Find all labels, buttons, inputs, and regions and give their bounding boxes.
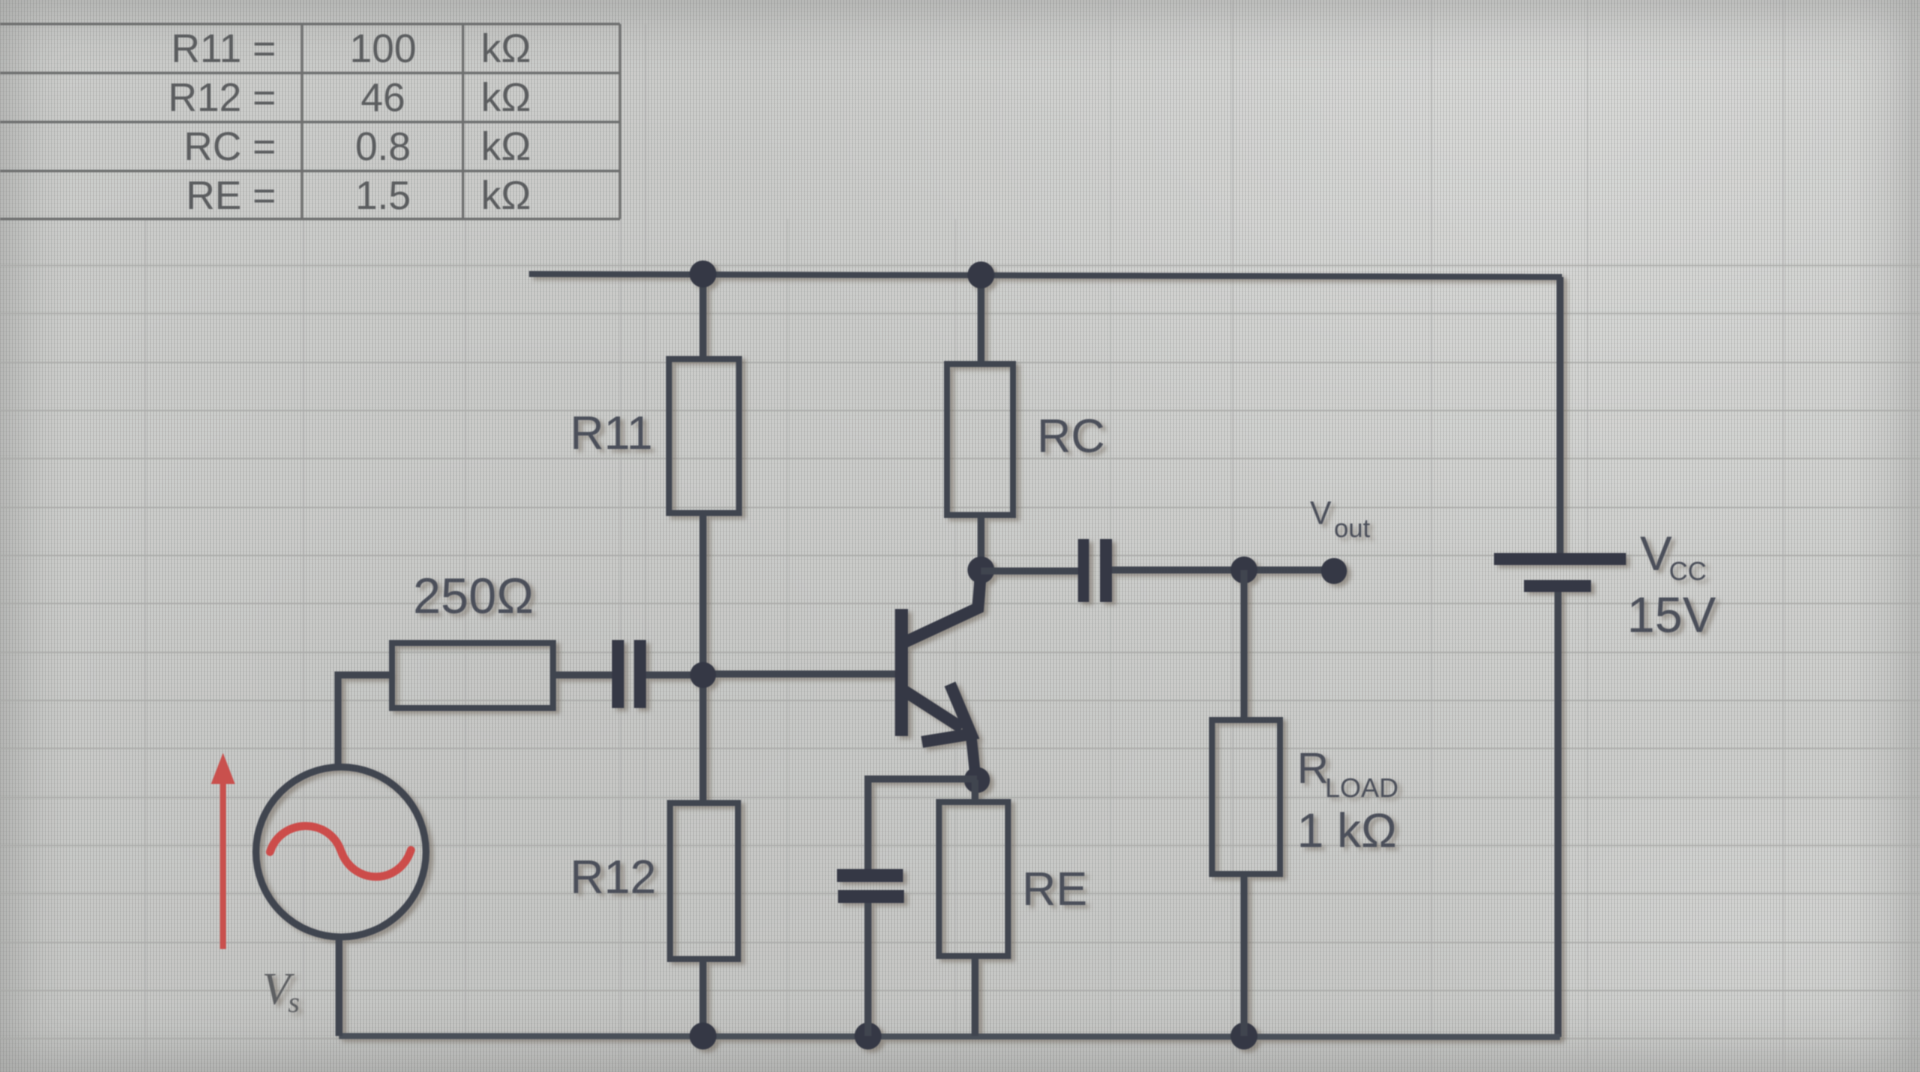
wire: RLOAD bottom lead	[1241, 874, 1248, 1036]
svg-text:1.5: 1.5	[355, 174, 411, 218]
wire: right vertical from top rail to battery	[1557, 277, 1564, 556]
wire: vout node to terminal	[1244, 567, 1333, 574]
svg-text:s: s	[288, 986, 300, 1019]
wire: top supply rail	[529, 274, 1562, 277]
svg-text:R12: R12	[570, 850, 656, 903]
svg-text:0.8: 0.8	[355, 125, 411, 169]
parameter table	[0, 24, 620, 219]
node: vout junction	[1231, 557, 1258, 584]
battery VCC short plate	[1524, 580, 1591, 592]
wire: RC bottom to collector node	[978, 515, 985, 573]
svg-text:V: V	[1310, 495, 1332, 531]
wire: RE bottom lead	[972, 956, 979, 1036]
svg-text:R: R	[1297, 744, 1329, 793]
node: emitter	[964, 767, 990, 793]
red reference arrow	[211, 753, 235, 949]
node: collector	[968, 557, 995, 584]
capacitor C2 plate 1	[1078, 539, 1089, 602]
node: ground bypass cap	[855, 1023, 882, 1050]
label RLOAD	[1297, 744, 1399, 858]
node: ground RLOAD	[1231, 1023, 1258, 1050]
capacitor C1 plate 2	[634, 640, 646, 708]
svg-text:R12 =: R12 =	[168, 76, 276, 120]
node: top rail R11	[690, 261, 717, 288]
transistor Q1 emitter arrow	[922, 684, 971, 742]
node: base junction	[690, 662, 716, 688]
label Vout	[1310, 495, 1371, 543]
svg-text:RC =: RC =	[184, 125, 276, 169]
wire: emitter node to RE	[972, 780, 979, 805]
source resistor 250 ohm	[392, 643, 553, 708]
node: ground R12	[690, 1023, 717, 1050]
wire: R12 top lead	[700, 675, 707, 806]
svg-text:kΩ: kΩ	[481, 76, 531, 120]
wire: battery to bottom rail	[1555, 589, 1562, 1037]
wire: bypass cap to ground	[865, 903, 872, 1036]
battery VCC long plate	[1494, 553, 1626, 565]
wire: source to resistor left lead	[338, 675, 392, 770]
svg-text:kΩ: kΩ	[481, 27, 531, 71]
wire: emitter tip to emitter node	[971, 734, 976, 782]
wire: collector node to output cap	[981, 568, 1080, 575]
svg-text:46: 46	[361, 76, 406, 120]
svg-text:kΩ: kΩ	[481, 174, 531, 218]
wire: output cap to vout node	[1112, 567, 1244, 574]
wire: vout node to RLOAD	[1241, 570, 1248, 723]
transistor Q1 emitter stroke	[903, 690, 962, 728]
svg-text:RE =: RE =	[186, 174, 276, 218]
svg-text:RC: RC	[1037, 409, 1105, 462]
wire: bottom ground rail	[339, 1036, 1560, 1037]
svg-text:15V: 15V	[1627, 587, 1717, 643]
wire: resistor to input cap	[553, 672, 614, 679]
svg-text:V: V	[1640, 528, 1672, 581]
svg-text:out: out	[1334, 513, 1371, 543]
capacitor C1 plate 1	[612, 640, 624, 708]
sine wave in source	[270, 826, 411, 877]
svg-text:CC: CC	[1669, 556, 1707, 586]
terminal Vout	[1321, 558, 1347, 584]
resistor RE	[939, 802, 1008, 956]
wire: input cap to base node	[646, 672, 703, 679]
wire: R12 bottom lead	[700, 959, 707, 1036]
wire: R11 bottom to base node	[700, 513, 707, 678]
wire: Vs bottom to ground rail	[336, 935, 343, 1036]
resistor R12	[670, 803, 738, 959]
svg-text:LOAD: LOAD	[1325, 773, 1399, 803]
svg-text:R11: R11	[570, 406, 653, 459]
wire: RC top lead	[978, 274, 985, 367]
label Vs	[262, 963, 300, 1019]
svg-text:250Ω: 250Ω	[413, 568, 534, 624]
bypass capacitor CE plate 1	[837, 869, 903, 882]
bypass capacitor CE plate 2	[838, 890, 904, 903]
svg-text:1 kΩ: 1 kΩ	[1297, 805, 1397, 858]
svg-text:100: 100	[350, 27, 417, 71]
source Vs circle	[256, 767, 426, 937]
transistor Q1 base bar	[895, 609, 908, 736]
wire: emitter to bypass cap branch	[868, 779, 977, 871]
resistor R11	[669, 359, 739, 513]
wire: base node to transistor base	[703, 671, 896, 678]
wire: R11 top lead	[700, 274, 707, 362]
svg-text:RE: RE	[1022, 862, 1087, 915]
transistor Q1 collector stroke	[903, 570, 981, 643]
capacitor C2 plate 2	[1100, 539, 1112, 602]
resistor RLOAD	[1212, 720, 1280, 874]
svg-text:kΩ: kΩ	[481, 125, 531, 169]
resistor RC	[947, 364, 1013, 515]
svg-text:R11 =: R11 =	[171, 27, 276, 71]
node: top rail RC	[968, 262, 995, 289]
label VCC	[1627, 528, 1717, 643]
